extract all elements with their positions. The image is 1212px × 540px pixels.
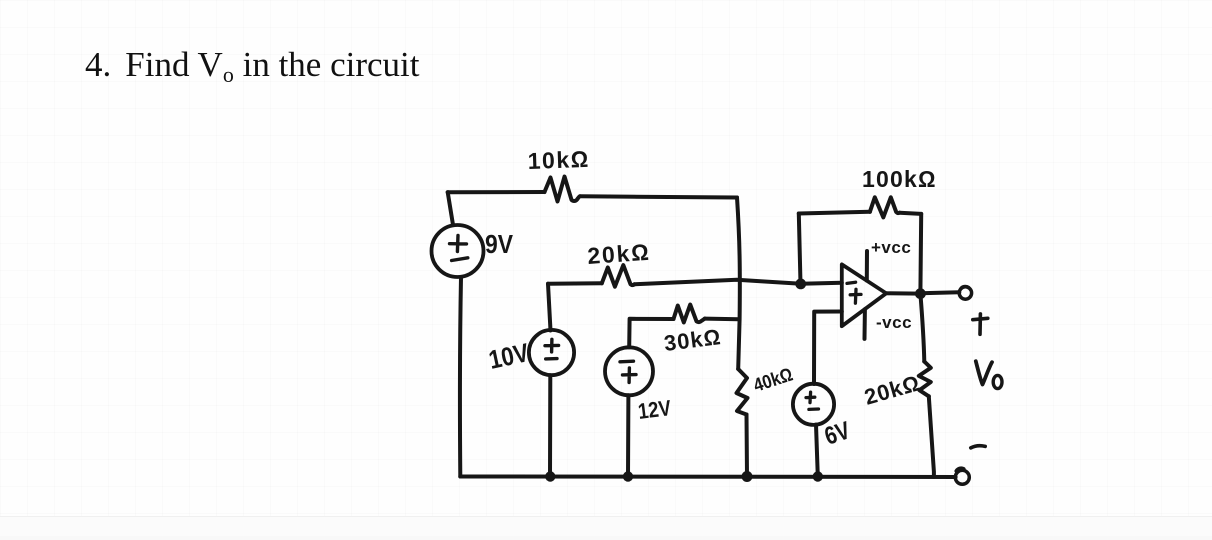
feedback left vertical wire xyxy=(799,214,801,284)
V2 plus xyxy=(545,339,559,352)
svg-text:40kΩ: 40kΩ xyxy=(751,364,796,396)
wire output to terminal xyxy=(921,290,960,295)
wire 20k left horizontal xyxy=(548,281,602,286)
plus sign output xyxy=(973,314,988,334)
wire output node down to 20k xyxy=(920,294,924,362)
wire middle vertical xyxy=(737,198,740,370)
svg-text:10V: 10V xyxy=(486,337,532,375)
label 9V xyxy=(485,229,514,259)
terminal circle output bottom xyxy=(955,468,969,484)
wire 20k down to bottom xyxy=(929,396,934,476)
wire 6V to bottom xyxy=(816,425,818,477)
label -Vcc xyxy=(876,313,912,332)
svg-text:20kΩ: 20kΩ xyxy=(861,370,923,410)
wire 9V to bottom-left corner xyxy=(458,278,463,477)
minus sign output xyxy=(971,446,985,448)
V1 minus xyxy=(452,258,468,261)
source V2 10V circle xyxy=(529,330,574,375)
resistor R4 100k zigzag xyxy=(870,197,900,217)
wire 10V to bottom xyxy=(548,375,552,476)
V4 plus xyxy=(806,392,815,402)
junction dot bottom-2 xyxy=(623,471,633,481)
label 10V xyxy=(486,337,532,375)
wire 20k left corner vertical xyxy=(548,284,551,331)
svg-text:-vcc: -vcc xyxy=(876,313,912,332)
wire 12V to bottom xyxy=(626,395,630,476)
V3 plus xyxy=(623,368,637,383)
junction dot inverting node xyxy=(795,279,806,290)
wire 30k to middle vertical xyxy=(705,317,739,322)
wire top horizontal to corner xyxy=(580,196,737,197)
svg-text:10kΩ: 10kΩ xyxy=(527,146,590,174)
wire +Vcc stub xyxy=(865,251,869,281)
wire bottom horizontal xyxy=(460,475,955,480)
V2 minus xyxy=(546,357,557,361)
U1 plus sign xyxy=(850,289,861,303)
resistor R2 20k zigzag xyxy=(602,265,635,287)
svg-text:20kΩ: 20kΩ xyxy=(587,239,652,269)
label 6V xyxy=(821,416,854,450)
resistor R5 40k zigzag xyxy=(737,369,748,415)
label Vo subscript o xyxy=(993,375,1002,388)
V1 plus xyxy=(450,236,467,252)
wire 6V up to op-amp noninverting input xyxy=(814,312,842,385)
U1 minus sign xyxy=(847,282,856,283)
wire -Vcc stub xyxy=(863,309,867,339)
wire 40k to bottom xyxy=(745,415,750,477)
V4 minus xyxy=(809,407,819,411)
source V1 9V circle xyxy=(432,225,484,277)
resistor R1 10k zigzag xyxy=(545,177,581,202)
junction dot output node xyxy=(915,288,926,299)
svg-text:30kΩ: 30kΩ xyxy=(663,324,723,356)
svg-text:12V: 12V xyxy=(637,395,673,424)
label 10kΩ xyxy=(527,146,590,174)
label 12V xyxy=(637,395,673,424)
wire 12V up to 30k xyxy=(629,319,673,348)
resistor R3 30k zigzag xyxy=(674,305,705,323)
op-amp U1 triangle xyxy=(842,264,886,326)
junction dot bottom-1 xyxy=(545,471,555,481)
resistor R6 20k vertical zigzag xyxy=(919,362,931,397)
feedback right vertical wire xyxy=(918,214,923,294)
label 100kΩ xyxy=(862,166,937,192)
label 20kΩ xyxy=(587,239,652,269)
wire 20k to op-amp inverting input xyxy=(635,280,842,285)
feedback top wire left xyxy=(799,212,870,214)
terminal circle output top xyxy=(959,286,971,299)
feedback top wire right xyxy=(900,213,922,214)
label 20kΩ right xyxy=(861,370,923,410)
label Vo xyxy=(976,361,992,384)
wire top-left horizontal xyxy=(448,190,545,194)
label 30kΩ xyxy=(663,324,723,356)
junction dot bottom-3 xyxy=(742,471,753,482)
label +Vcc xyxy=(871,238,911,257)
svg-text:+vcc: +vcc xyxy=(871,238,911,257)
source V3 12V circle xyxy=(605,347,653,395)
wire op-amp output xyxy=(886,291,920,295)
source V4 6V circle xyxy=(793,384,834,425)
V3 minus top xyxy=(620,360,634,364)
svg-text:9V: 9V xyxy=(485,229,514,259)
label 40kΩ xyxy=(751,364,796,396)
wire left vertical from corner to 9V xyxy=(448,192,453,225)
svg-text:100kΩ: 100kΩ xyxy=(862,166,937,192)
junction dot bottom-4 xyxy=(813,471,823,481)
